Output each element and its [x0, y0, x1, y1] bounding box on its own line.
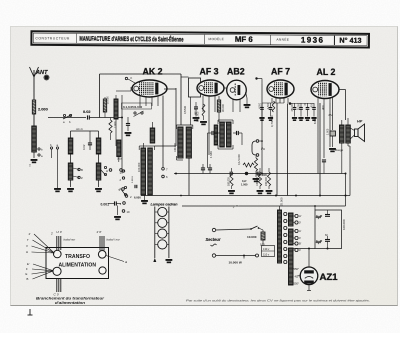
resistor 10.000 [103, 99, 106, 112]
svg-text:MF 6: MF 6 [235, 35, 253, 44]
lamp rails [154, 207, 156, 259]
voltage selector coil [279, 206, 281, 210]
wire (anode to right) [164, 88, 176, 90]
capacitor 30 [306, 107, 310, 109]
wire [190, 97, 192, 125]
mains terminal 1 [212, 228, 215, 231]
coil taps [38, 148, 40, 150]
svg-text:100.000: 100.000 [342, 219, 346, 230]
twisted pair 1 [56, 236, 58, 250]
wire left bus [99, 74, 101, 118]
svg-text:1.000: 1.000 [241, 183, 248, 187]
resistor [217, 100, 220, 112]
svg-text:Pu: Pu [261, 147, 265, 151]
resistor 100.000 [258, 172, 261, 186]
svg-text:110 v: 110 v [263, 253, 270, 257]
svg-text:Lampes cadran: Lampes cadran [151, 203, 179, 207]
wire [216, 229, 251, 230]
tube AZ1 [300, 267, 318, 285]
IF transformer T2 [219, 121, 226, 123]
svg-text:B: B [27, 277, 29, 281]
switch [134, 112, 136, 114]
switch [251, 226, 258, 229]
AF3 input transformer [178, 127, 183, 158]
terminals F G [162, 96, 164, 168]
ground (antenna coil) [31, 159, 38, 161]
resistor (zigzag h) [243, 163, 254, 167]
terminal 19 [122, 210, 125, 213]
tap 4' [295, 248, 298, 251]
filter loop [315, 210, 342, 249]
label 0.1,0.05/1.000 [122, 103, 152, 109]
svg-text:CONSTRUCTEUR: CONSTRUCTEUR [35, 36, 70, 40]
svg-text:AF 3: AF 3 [200, 67, 219, 77]
resistor 500.000 [230, 172, 233, 186]
tube AF7 pin wires [271, 98, 273, 103]
svg-text:H' 0': H' 0' [57, 230, 63, 234]
junction blob [245, 172, 248, 175]
svg-text:F: F [26, 267, 28, 271]
transfo terminal circles [54, 250, 62, 258]
svg-text:0.0001: 0.0001 [132, 176, 134, 183]
ground [54, 188, 61, 190]
capacitor A-500 [269, 107, 273, 109]
fan wires upper [34, 234, 54, 253]
antenna ANT [30, 67, 35, 77]
svg-text:HP: HP [357, 120, 363, 124]
wire vertical right [345, 174, 347, 207]
mains terminal 2 [212, 254, 215, 257]
ground [329, 148, 336, 150]
svg-text:1 MΩ: 1 MΩ [209, 151, 213, 158]
capacitor (grid) [126, 123, 130, 125]
resistor (zig) [272, 101, 275, 112]
svg-text:30.000: 30.000 [221, 104, 225, 112]
tube AF7 [267, 80, 294, 98]
wire bus y206 [182, 205, 346, 207]
terre terminal [44, 75, 48, 79]
tap 0' [295, 221, 298, 224]
wire [262, 102, 284, 104]
terminals B Z [78, 168, 80, 170]
coil pair (ant circuit) [98, 131, 100, 138]
ground [114, 216, 121, 218]
tube AB2 pin wires [232, 100, 234, 113]
resistor 200.000 [267, 172, 270, 186]
coil (cathode) [114, 99, 118, 119]
bottom left mark [29, 309, 31, 315]
svg-text:8µF: 8µF [316, 215, 323, 219]
tube AF3 pin wires [202, 96, 204, 112]
dial lamp [158, 240, 167, 249]
tap A' [295, 229, 298, 232]
terminals H B [109, 169, 112, 172]
wire main bus y173 [174, 173, 346, 175]
svg-text:100: 100 [260, 243, 265, 247]
capacitor 0.0001 [134, 185, 136, 188]
ground [253, 178, 260, 180]
svg-text:d'alimentation: d'alimentation [55, 301, 85, 305]
loudspeaker HP [355, 129, 359, 137]
svg-text:100.000: 100.000 [137, 162, 141, 172]
tube AL2 pin wires [317, 98, 319, 103]
capacitor to ground [208, 167, 212, 169]
svg-text:ALIMENTATION: ALIMENTATION [59, 263, 97, 269]
svg-text:0,5/500: 0,5/500 [184, 105, 187, 114]
capacitor to ground [201, 167, 205, 169]
header divider [269, 35, 271, 45]
switch [104, 166, 106, 168]
series capacitor on bus [229, 172, 231, 176]
svg-text:0,7/1.000: 0,7/1.000 [270, 115, 274, 127]
header box [31, 31, 369, 47]
svg-text:130 v: 130 v [263, 247, 270, 251]
svg-text:N° 413: N° 413 [339, 36, 361, 45]
svg-text:Par suite d'un oubli du dessin: Par suite d'un oubli du dessinateur, les… [186, 299, 370, 303]
selector box [262, 246, 275, 257]
capacitor (T2 left) [211, 131, 213, 135]
coil (padding) [150, 128, 155, 143]
dial lamp [158, 229, 167, 238]
switch contacts [63, 114, 65, 116]
wire [216, 255, 256, 257]
svg-text:Mu: Mu [329, 113, 333, 117]
capacitor 4.000 [260, 107, 264, 109]
bus (rectifier) [293, 248, 315, 250]
svg-text:T: T [27, 238, 29, 242]
svg-text:4.000: 4.000 [260, 102, 262, 108]
tube AK2 [132, 80, 167, 97]
pickup Pu [252, 141, 256, 155]
svg-text:0,2/: 0,2/ [242, 179, 247, 183]
svg-text:H: H [26, 250, 28, 254]
wire [121, 95, 123, 118]
svg-text:4.00: 4.00 [312, 102, 314, 107]
svg-text:200.000: 200.000 [265, 177, 268, 186]
svg-text:8µF: 8µF [316, 240, 323, 244]
twisted pair 2 [99, 236, 101, 251]
antenna lead wire [33, 77, 35, 100]
svg-text:Secteur: Secteur [206, 237, 221, 242]
svg-text:0.1,0.05/1.000: 0.1,0.05/1.000 [123, 105, 143, 109]
capacitor 250.000 [293, 107, 297, 109]
antenna coil L1 [33, 114, 35, 126]
svg-text:10.000 W: 10.000 W [229, 261, 242, 265]
svg-text:0,1/1.000: 0,1/1.000 [197, 111, 200, 122]
header divider [333, 35, 335, 45]
tube AL2 [311, 81, 339, 99]
tube AF3 shield box [189, 78, 201, 97]
svg-text:AB2: AB2 [227, 67, 245, 77]
fan wires lower [33, 264, 54, 271]
svg-text:TRANSFO: TRANSFO [65, 254, 90, 260]
svg-text:550°: 550° [294, 267, 300, 271]
svg-text:25.000: 25.000 [280, 197, 284, 206]
svg-text:Z: Z [81, 176, 83, 180]
output transformer [340, 125, 345, 143]
svg-text:A-500: A-500 [267, 102, 270, 109]
wire (AF3 to AB2) [224, 87, 227, 89]
svg-text:2.000: 2.000 [38, 107, 48, 112]
wire [180, 74, 182, 125]
ground (osc coil 1) [67, 188, 74, 190]
svg-text:Rouge: Rouge [335, 148, 344, 152]
contacts b a [50, 147, 52, 149]
svg-text:AZ1: AZ1 [320, 272, 339, 283]
wire [207, 133, 209, 168]
svg-text:10.000: 10.000 [247, 235, 257, 239]
svg-text:10.000: 10.000 [107, 96, 110, 104]
ground (AB2) [244, 104, 251, 106]
svg-text:4' 8': 4' 8' [97, 230, 102, 234]
tap B' [295, 242, 298, 245]
svg-text:K: K [131, 76, 133, 80]
dial lamp [158, 207, 167, 216]
selector taps [284, 212, 287, 215]
svg-text:bobal nor: bobal nor [64, 238, 77, 242]
svg-text:0.001: 0.001 [101, 203, 110, 207]
capacitor 4.00 [312, 107, 316, 109]
series capacitor on bus [256, 172, 258, 176]
wire [308, 249, 310, 268]
terminal [255, 77, 257, 79]
grid cap wire [128, 79, 135, 83]
resistor 2.000 [32, 100, 35, 114]
wire (coupling row) [48, 117, 86, 119]
svg-text:H: H [106, 169, 108, 173]
tube AB2 [227, 80, 247, 100]
resistor 10.000 [261, 232, 265, 240]
squiggle [211, 244, 217, 246]
capacitor 0.02 [88, 142, 92, 144]
svg-text:B: B [81, 168, 83, 172]
tap 4' [295, 236, 298, 239]
resistor (AF3 zig) [202, 104, 205, 116]
wire (AL2 anode) [339, 89, 346, 91]
tap H' [295, 214, 298, 217]
resistor 7.000 (zig) [109, 120, 112, 133]
svg-text:500.000: 500.000 [227, 177, 230, 186]
coil pair (osc) [70, 131, 72, 138]
svg-text:7.000: 7.000 [113, 121, 117, 128]
coil (osc cathode) [117, 140, 121, 157]
capacitor (AF3 grid) [194, 106, 198, 108]
dial lamp [158, 218, 167, 227]
svg-text:4Ω: 4Ω [295, 275, 299, 279]
header divider [75, 33, 77, 43]
ground (osc coil 2) [95, 188, 102, 190]
svg-text:bobal / nor: bobal / nor [107, 238, 121, 242]
svg-text:19: 19 [127, 210, 130, 214]
svg-text:AF 7: AF 7 [271, 67, 290, 77]
tube AK2 pin wires [139, 96, 141, 106]
pencil mark [233, 205, 239, 208]
transformer secondary windings [289, 213, 294, 226]
svg-text:6.000: 6.000 [134, 196, 141, 200]
ground (lamps) [166, 259, 173, 261]
svg-text:1.000: 1.000 [327, 128, 330, 135]
svg-text:0.02: 0.02 [83, 109, 91, 114]
capacitor (tone) [330, 131, 336, 136]
svg-text:AL 2: AL 2 [317, 67, 336, 77]
contacts 5 2 1 [122, 188, 125, 191]
capacitor (T2 right) [236, 131, 238, 135]
resistor 30.000 (zig) [254, 158, 257, 171]
svg-text:AK 2: AK 2 [143, 67, 163, 77]
svg-text:1936: 1936 [301, 36, 324, 45]
svg-text:MODÈLE: MODÈLE [208, 36, 224, 41]
svg-text:100.000: 100.000 [256, 177, 259, 186]
svg-text:0,1/1.000: 0,1/1.000 [237, 154, 241, 165]
tube AF3 [197, 80, 224, 96]
twisted pair bottom [56, 279, 58, 293]
capacitor 0.02 [87, 115, 89, 119]
capacitor 50.000 [299, 107, 303, 109]
wire bus y195 [141, 195, 350, 197]
svg-text:E: E [26, 272, 28, 276]
wire al [106, 256, 124, 262]
wire [332, 97, 334, 130]
IF transformer T1 [143, 143, 145, 148]
svg-text:al: al [125, 260, 128, 264]
header divider [203, 34, 205, 44]
svg-text:8.000: 8.000 [313, 117, 317, 124]
svg-text:0.02: 0.02 [82, 144, 86, 150]
svg-text:400: 400 [321, 105, 325, 110]
svg-text:V: V [26, 244, 28, 248]
svg-text:550°: 550° [294, 282, 300, 286]
link wire [71, 130, 99, 132]
wire [121, 118, 123, 174]
transfo box [46, 248, 109, 279]
arrow [153, 258, 156, 262]
wire [90, 117, 123, 119]
ground [125, 132, 132, 134]
svg-text:T: T [29, 164, 31, 168]
contacts 1 2 [122, 170, 124, 172]
ground (T1) [141, 200, 148, 202]
wire verticals [261, 84, 263, 140]
svg-text:100.000: 100.000 [174, 143, 177, 152]
switch S [124, 186, 126, 188]
svg-text:Am to: Am to [75, 127, 83, 131]
svg-text:ANNÉE: ANNÉE [276, 37, 289, 42]
